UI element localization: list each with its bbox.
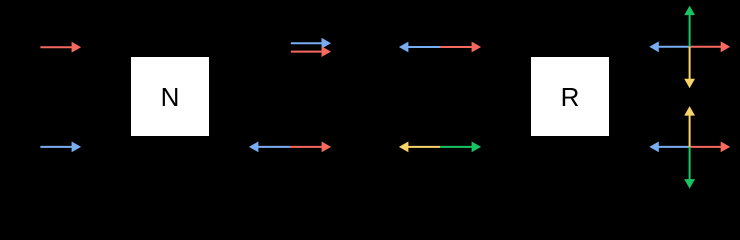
arrow B1: blue right arrow (output pair, top) <box>291 38 331 49</box>
cross H yellow up arrow <box>689 114 691 147</box>
svg-text:R: R <box>561 82 580 112</box>
arrow B2: red right arrow (output pair, bottom) <box>291 46 331 57</box>
arrow G: double-headed arrow, yellow left half, green right half (bottom middle-right) <box>399 142 481 153</box>
box R <box>531 57 609 136</box>
cross H (bottom right): center 689.6,146.9 <box>649 106 730 189</box>
cross H blue left arrow <box>657 146 690 148</box>
cross D (top right): center 689.6,46.8 <box>649 6 730 89</box>
cross H red right arrow <box>690 146 723 148</box>
arrow C: double-headed arrow, blue left half, red right half (top middle-right) <box>399 42 481 53</box>
box N <box>131 57 209 136</box>
svg-text:N: N <box>161 82 180 112</box>
cross D blue left arrow <box>657 46 690 48</box>
cross D yellow down arrow <box>689 47 691 81</box>
arrow F: double-headed arrow, blue left half, red right half (bottom middle-left) <box>249 142 331 153</box>
cross D red right arrow <box>690 46 723 48</box>
cross H green down arrow <box>689 147 691 181</box>
arrow E: blue right arrow (bottom-left input) <box>40 142 81 153</box>
cross D green up arrow <box>689 13 691 47</box>
arrow A: red right arrow (top-left input) <box>40 42 81 53</box>
